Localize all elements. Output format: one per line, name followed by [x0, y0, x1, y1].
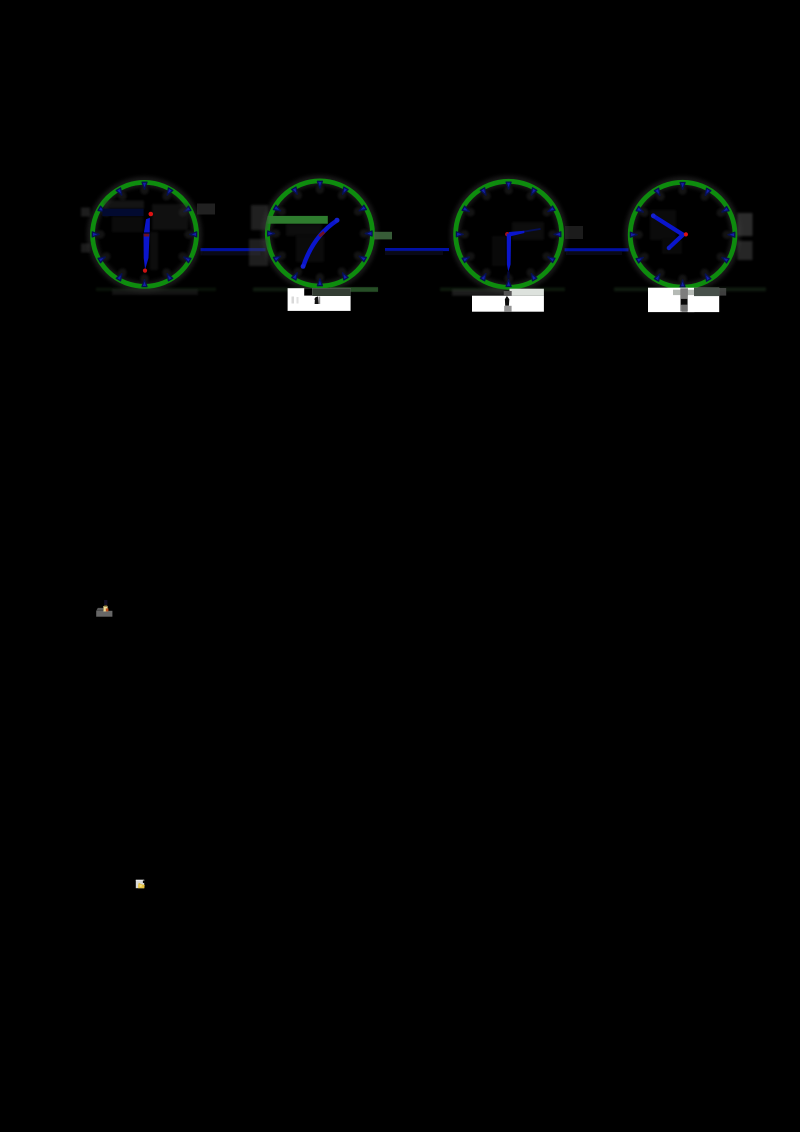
clock 4 hand to lower-left — [669, 235, 683, 248]
clock 3 tick position 3 — [548, 230, 556, 238]
clock 4 tick position 7 — [655, 267, 666, 278]
artifact gray haze above label 3 — [452, 289, 504, 295]
clock 4 tick position 4 — [715, 251, 726, 262]
clock 3 long hand pointing down — [507, 234, 511, 272]
clock 2 tick position 2 — [352, 206, 363, 217]
clock 2 green ring — [267, 181, 372, 286]
artifact gray stub right of clock 3 — [565, 226, 583, 239]
clock 2 tick position 4 — [352, 250, 363, 261]
clock 2 hand tip dot upper — [335, 218, 340, 223]
clock 1 tick position 1 — [161, 191, 172, 202]
clock 4 tick position 2 — [715, 207, 726, 218]
clock 3 thin navy hand to the right — [509, 229, 541, 234]
clock 2 tick position 5 — [336, 266, 347, 277]
label 2 glyph — [314, 296, 319, 304]
clock 1 tick position 5 — [161, 267, 172, 278]
label box under clock 3 — [472, 289, 544, 312]
small document/star icon — [136, 880, 145, 889]
clock 4 tick position 9 — [634, 231, 642, 239]
edge clock3-clock4 — [565, 248, 629, 255]
clock 3 red centre hint — [505, 232, 509, 236]
artifact gray stub left of clock 1 (upper) — [81, 208, 90, 217]
clock 4 tick position 1 — [699, 191, 710, 202]
clock 1 green ring — [93, 182, 197, 286]
clock 2 tick position 7 — [292, 266, 303, 277]
clock 4 tick position 8 — [639, 251, 650, 262]
clock 4 interior artifact patches — [650, 210, 676, 240]
clock 3 gray JPEG halo — [455, 181, 562, 288]
clock 4 tick position 10 — [639, 207, 650, 218]
clock 2 maroon centre mark — [318, 231, 325, 237]
clock 4 hand to upper-left — [654, 216, 684, 235]
clock 3 tick position 4 — [541, 251, 552, 262]
clock 2 tick position 6 — [316, 273, 324, 281]
clock 1 tick position 7 — [117, 267, 128, 278]
clock 1 maroon centre mark — [144, 234, 149, 237]
label 4 glyph — [681, 299, 687, 305]
clock 4 gray JPEG halo — [630, 182, 736, 288]
clock 4 tick position 5 — [699, 267, 710, 278]
clock 1 tick position 11 — [117, 191, 128, 202]
clock 1 interior artifact patches — [104, 201, 144, 209]
artifact gray stub right of clock 1 — [197, 204, 215, 215]
clock 1 tick position 6 — [140, 274, 148, 282]
artifact band under clocks row (fragmented) — [96, 288, 216, 291]
artifact green stub right of clock 2 — [374, 232, 392, 240]
clock 4 red centre dot — [684, 232, 688, 236]
artifact gray stub left of clock 1 (lower) — [81, 244, 90, 253]
clock 2 hand tip dot lower — [301, 264, 306, 269]
clock 3 tick position 11 — [481, 190, 492, 201]
artifact gray patch left of clock 2 (upper) — [251, 205, 268, 230]
clock 2 tick position 11 — [292, 190, 303, 201]
clock 3 tick position 9 — [460, 230, 468, 238]
clock 1 tick position 10 — [101, 207, 112, 218]
clock 3 tick position 10 — [465, 207, 476, 218]
small lamp/candle icon — [96, 600, 112, 617]
clock 1 tick position 9 — [96, 230, 104, 238]
clock 3 tick position 8 — [465, 251, 476, 262]
clock 4 tick position 3 — [722, 231, 730, 239]
clock 4 tick position 6 — [678, 275, 686, 283]
artifact green patch below-right of clock 2 — [330, 287, 378, 292]
clock 2 diagonal blue hand — [303, 221, 336, 266]
clock 3 tick position 6 — [504, 274, 512, 282]
edge clock2-clock3 — [385, 248, 449, 255]
clock 4 upper hand tip dot — [651, 213, 656, 218]
clock 3 dark stub below hand — [507, 272, 509, 279]
clock 2 green horizontal band — [268, 216, 328, 224]
clock 2 tick position 12 — [316, 185, 324, 193]
clock 1 tick position 4 — [177, 251, 188, 262]
label box under clock 4 — [648, 288, 726, 312]
clock 3 tick position 7 — [481, 267, 492, 278]
clock 1 tick position 2 — [177, 207, 188, 218]
clock 3 tick position 5 — [525, 267, 536, 278]
clock 2 interior artifact patches — [286, 224, 322, 236]
artifact gray band right of clock 4 — [738, 213, 753, 236]
clock 4 lower hand tip dot — [667, 246, 671, 250]
clock 2 tick position 8 — [276, 250, 287, 261]
clock 3 tick position 1 — [525, 190, 536, 201]
clock 3 tick position 2 — [541, 207, 552, 218]
clock 1 long blue hand (vertical lens shape) — [144, 218, 150, 233]
clock 2 gray JPEG halo — [267, 180, 373, 286]
clock 3 tick position 12 — [504, 186, 512, 194]
clock 2 tick position 1 — [336, 190, 347, 201]
clock 3 interior artifact patches — [512, 222, 544, 240]
clock 1 gray JPEG halo — [92, 182, 197, 287]
clock 1 tick position 8 — [101, 251, 112, 262]
label box under clock 2 — [288, 288, 351, 311]
clock 2 tick position 10 — [276, 206, 287, 217]
label 3 glyph (up-arrow like) — [505, 296, 509, 306]
clock 4 tick position 12 — [678, 187, 686, 195]
clock 2 tick position 3 — [360, 229, 368, 237]
clock 4 green ring — [630, 182, 735, 287]
clock 1 dark navy hand pointing west — [102, 209, 143, 216]
clock 1 tick position 3 — [184, 230, 192, 238]
clock 1 tick position 12 — [140, 186, 148, 194]
clock 1 red dot upper — [149, 212, 154, 217]
edge clock1-clock2 — [201, 248, 266, 255]
clock 1 red dot lower — [143, 269, 147, 273]
clock 2 tick position 9 — [272, 229, 280, 237]
artifact gray patch left of clock 2 (lower) — [249, 239, 268, 266]
artifact ghost smudge under clock 1 — [112, 289, 198, 295]
clock 4 tick position 11 — [655, 191, 666, 202]
clock 3 green ring — [456, 181, 562, 287]
clock 3 short thick hand pointing right — [509, 231, 525, 237]
